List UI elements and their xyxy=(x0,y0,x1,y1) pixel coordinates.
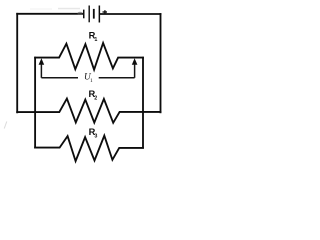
svg-text:3: 3 xyxy=(94,134,97,140)
svg-text:1: 1 xyxy=(94,37,97,43)
svg-text:2: 2 xyxy=(94,96,97,102)
svg-text:1: 1 xyxy=(90,78,93,84)
